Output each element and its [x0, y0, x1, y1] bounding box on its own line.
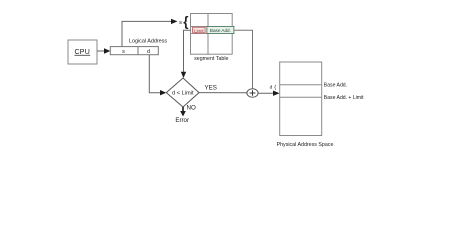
wire Base Add to adder — [234, 30, 253, 88]
NO arrow from comparator — [182, 107, 184, 112]
svg-text:Base Add.: Base Add. — [324, 83, 347, 89]
divider s|d — [137, 47, 139, 55]
svg-text:Physical Address Space: Physical Address Space — [277, 142, 334, 148]
arrowhead into comparator top — [181, 72, 186, 78]
wire Limit to comparator — [184, 30, 191, 73]
comparator diamond d < Limit — [166, 78, 199, 107]
svg-text:Error: Error — [175, 117, 189, 124]
svg-text:Base Add.: Base Add. — [210, 28, 231, 33]
arrowhead into physical memory — [273, 91, 280, 96]
wire CPU to logical address — [97, 50, 106, 52]
wire d to comparator — [149, 55, 161, 93]
svg-text:{: { — [274, 85, 276, 91]
arrowhead into comparator left — [160, 90, 166, 95]
svg-text:{: { — [183, 14, 188, 29]
adder circle (+) — [247, 89, 258, 97]
svg-text:d < Limit: d < Limit — [172, 91, 194, 97]
segment table row lines — [191, 26, 233, 28]
Base Add cell (highlighted green) — [207, 26, 234, 33]
svg-text:s: s — [179, 20, 182, 26]
wire adder to physical memory — [258, 92, 274, 94]
segment region top line (Base Add.) — [280, 84, 322, 86]
wire s to segment table — [122, 21, 173, 46]
segment table frame — [191, 14, 233, 55]
Limit cell (highlighted red) — [193, 27, 206, 33]
segment table column divider — [207, 14, 209, 55]
svg-text:d: d — [147, 49, 150, 55]
svg-text:segment Table: segment Table — [194, 56, 228, 62]
physical address space box — [280, 62, 322, 136]
logical address box — [110, 47, 158, 55]
arrowhead at s brace — [171, 19, 178, 24]
svg-text:d: d — [270, 84, 273, 90]
YES wire comparator to adder — [199, 92, 247, 94]
svg-text:Limit: Limit — [194, 28, 204, 33]
svg-text:YES: YES — [205, 85, 217, 92]
arrowhead NO — [180, 111, 186, 117]
svg-text:CPU: CPU — [74, 49, 90, 56]
svg-text:Base Add. + Limit: Base Add. + Limit — [324, 95, 364, 101]
CPU box U1 — [68, 40, 97, 64]
arrowhead into logical address box — [104, 48, 110, 53]
adder plus sign — [250, 92, 256, 94]
svg-text:Logical Address: Logical Address — [129, 39, 167, 45]
svg-text:s: s — [122, 49, 125, 55]
svg-text:NO: NO — [187, 105, 196, 112]
segment region bottom line (Base Add. + Limit) — [280, 96, 322, 98]
